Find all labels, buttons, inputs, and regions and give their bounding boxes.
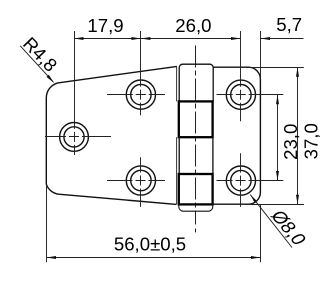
svg-text:5,7: 5,7 — [276, 14, 302, 35]
leader R4,8 — [20, 46, 53, 82]
arrow Ø8,0 — [250, 195, 257, 204]
right leaf outline — [213, 67, 260, 204]
arrow 23,0 bottom — [276, 171, 279, 181]
knuckle 3 (thin) — [178, 137, 180, 174]
hole UR outer — [226, 80, 255, 109]
hole LL outer — [126, 166, 155, 195]
arrow 17,9 left — [74, 37, 84, 40]
arrow 37,0 bottom — [296, 195, 299, 205]
arrow 56,0 right — [251, 256, 261, 259]
left leaf outline — [46, 66, 177, 204]
extension line 56,0 right — [260, 205, 262, 263]
hole LR outer — [226, 166, 255, 195]
crosshair UL horizontal — [107, 94, 165, 96]
svg-text:17,9: 17,9 — [87, 15, 123, 36]
extension line 56,0 left — [46, 185, 48, 262]
hole L outer — [60, 122, 89, 151]
arrow 26,0 right — [231, 37, 241, 40]
hole LL inner — [131, 170, 151, 190]
extension line 37,0 bottom — [246, 204, 304, 206]
crosshair LR horizontal / extension 23,0 bottom — [217, 180, 284, 182]
crosshair UR vertical / extension — [240, 31, 242, 121]
leader Ø8,0 — [250, 195, 292, 248]
hole UL outer — [126, 80, 155, 109]
svg-text:26,0: 26,0 — [175, 15, 211, 36]
hole UL inner — [131, 84, 151, 104]
arrow 26,0 left — [141, 37, 151, 40]
knuckle 1 (top, thin rounded top) — [179, 64, 213, 101]
extension line 5,7 right / plate right edge above — [260, 31, 262, 80]
arrow 37,0 top — [296, 67, 299, 77]
crosshair LL horizontal — [107, 180, 165, 182]
svg-text:56,0±0,5: 56,0±0,5 — [114, 233, 186, 254]
pin center line — [195, 46, 197, 233]
dimension line 56,0 — [47, 257, 261, 259]
crosshair LL vertical — [140, 157, 142, 207]
dimension tail 5,7 — [261, 38, 304, 40]
dimension line top (17,9 + 26,0) — [74, 38, 241, 40]
barrel left edge thin line — [176, 66, 178, 101]
crosshair L vertical / extension 17,9 left — [74, 31, 76, 155]
knuckle 2 (thick) — [179, 101, 213, 137]
arrow 23,0 top — [276, 95, 279, 105]
svg-text:23,0: 23,0 — [280, 124, 301, 160]
hole UR inner — [231, 85, 251, 105]
arrow 56,0 left — [47, 256, 57, 259]
hole L inner — [64, 127, 84, 147]
arrow R4,8 — [47, 75, 55, 83]
svg-text:37,0: 37,0 — [301, 123, 322, 159]
dimension line 23,0 — [277, 95, 279, 181]
hole LR inner — [231, 170, 251, 190]
knuckle 4 (bottom, thick with thin rounded bottom) — [179, 174, 213, 204]
crosshair UR horizontal / extension 23,0 top — [217, 94, 284, 96]
crosshair LR vertical — [240, 153, 242, 207]
arrow 5,7 — [261, 37, 271, 40]
crosshair UL vertical / extension — [140, 31, 142, 115]
crosshair L horizontal — [45, 136, 111, 138]
arrow 17,9 right — [131, 37, 141, 40]
dimension line 37,0 — [297, 67, 299, 204]
extension line 37,0 top — [246, 67, 304, 69]
